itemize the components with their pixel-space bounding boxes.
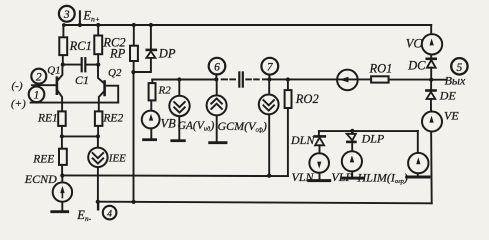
resistor R2 [149, 80, 156, 101]
junction C1 left [61, 63, 65, 67]
diode DP [133, 25, 156, 72]
junction output [429, 78, 433, 82]
controlled source GA [169, 80, 189, 141]
svg-text:RC1: RC1 [69, 39, 92, 53]
voltage source ECND [52, 176, 72, 212]
svg-text:Q1: Q1 [47, 65, 60, 77]
wire top supply rail Eп+ [64, 24, 432, 26]
capacitor C1 [63, 58, 98, 71]
svg-text:RP: RP [109, 47, 126, 61]
node 2 terminal circle [31, 69, 46, 86]
node 4 terminal circle [103, 206, 117, 220]
wire emitter line RE1-RE2 [62, 135, 98, 137]
junction C1 right [96, 63, 100, 67]
controlled source HLIM [407, 131, 429, 177]
svg-text:C1: C1 [75, 73, 89, 87]
node 3 terminal circle [59, 6, 75, 22]
controlled source GCM [207, 79, 227, 142]
svg-text:RO1: RO1 [369, 61, 393, 75]
current source IEE [88, 136, 107, 202]
svg-text:R2: R2 [158, 85, 172, 97]
svg-text:1: 1 [34, 90, 40, 102]
junction rail-Eп+ [78, 23, 82, 27]
junction emitter-RE2 [96, 134, 100, 138]
controlled source GB (under node 7) [259, 79, 279, 175]
resistor RC1 [59, 25, 67, 65]
svg-text:ECND: ECND [24, 172, 57, 186]
node 7 terminal circle [261, 58, 278, 80]
junction bus node 7 [267, 77, 271, 81]
wire Eп- terminal tick [97, 202, 99, 210]
junction rail-IEE [96, 200, 100, 204]
svg-text:GCM(Vсф): GCM(Vсф) [218, 119, 267, 134]
svg-text:4: 4 [107, 210, 112, 220]
svg-text:GA(Vид): GA(Vид) [178, 118, 215, 133]
junction rail-RC1 [62, 23, 66, 27]
node 6 terminal circle [209, 58, 226, 80]
junction RP-DP [131, 70, 135, 74]
svg-text:2: 2 [36, 71, 42, 83]
junction common-GB [267, 174, 271, 178]
svg-text:Q2: Q2 [108, 67, 122, 79]
svg-text:Вых: Вых [445, 74, 466, 88]
voltage source VC [422, 25, 442, 59]
wire (+) input to Q2 base [31, 102, 119, 104]
svg-text:(+): (+) [11, 98, 26, 110]
svg-text:(-): (-) [12, 80, 23, 92]
wire clamp line [319, 130, 418, 132]
junction rail-DP [149, 23, 153, 27]
junction common-REE [60, 173, 64, 177]
svg-text:HLIM(Iогр): HLIM(Iогр) [357, 171, 408, 186]
svg-text:6: 6 [214, 61, 220, 73]
wire interstage bus [152, 79, 216, 81]
node 1 terminal circle [29, 87, 45, 103]
transistor Q2 [98, 65, 118, 112]
junction bus-RO2 [286, 77, 290, 81]
wire RP column down to negative rail [133, 72, 135, 202]
svg-text:VLP: VLP [331, 170, 353, 184]
resistor RP [130, 25, 138, 72]
svg-text:REE: REE [32, 153, 54, 165]
wire output stub [431, 79, 446, 81]
resistor RE1 [58, 111, 65, 136]
in-line source GB2 output stage [337, 70, 358, 91]
diode DE [426, 80, 435, 99]
wire Eп+ terminal tick [79, 11, 81, 25]
svg-text:VC: VC [406, 36, 423, 50]
svg-text:IEE: IEE [108, 153, 126, 165]
svg-text:DE: DE [439, 89, 457, 103]
svg-text:VE: VE [444, 108, 459, 122]
svg-text:DC: DC [407, 59, 426, 73]
junction rail-RP [132, 23, 136, 27]
resistor REE [59, 136, 67, 175]
svg-text:VLN: VLN [292, 170, 315, 184]
svg-text:DLP: DLP [361, 132, 385, 146]
junction emitter-RE1 [60, 134, 64, 138]
diode DLN [315, 131, 325, 145]
diode DC [427, 59, 436, 80]
diode DLP [347, 131, 356, 142]
voltage source VLP [342, 142, 364, 178]
voltage source VB [142, 100, 160, 139]
svg-text:VB: VB [161, 116, 177, 130]
svg-text:3: 3 [63, 9, 70, 21]
svg-text:Eп-: Eп- [76, 208, 91, 223]
svg-text:Eп+: Eп+ [82, 9, 99, 24]
svg-text:RE1: RE1 [37, 112, 58, 124]
voltage source VE [422, 99, 442, 203]
junction rail-RP [132, 200, 136, 204]
resistor RO2 [285, 80, 292, 177]
resistor RO1 [371, 76, 431, 82]
resistor RE2 [95, 111, 103, 136]
node 5 terminal circle [451, 58, 467, 74]
junction clamp-DLP [350, 129, 354, 133]
svg-text:DP: DP [158, 46, 176, 60]
voltage source VLN [309, 145, 330, 180]
junction bus node 6 [214, 77, 218, 81]
capacitor C2 (dashed external) [222, 72, 270, 86]
svg-text:RO2: RO2 [295, 92, 319, 106]
junction bus-GA [177, 77, 181, 81]
transistor Q1 [32, 65, 62, 112]
svg-text:RE2: RE2 [102, 112, 123, 124]
junction rail-RC2 [96, 23, 100, 27]
resistor RC2 [94, 25, 102, 65]
wire negative rail Eп- [98, 202, 432, 204]
svg-text:7: 7 [267, 62, 274, 74]
svg-text:5: 5 [457, 62, 463, 74]
wire bus node7 to RO1 [269, 78, 371, 80]
wire common line [62, 174, 288, 177]
svg-text:DLN: DLN [290, 133, 315, 147]
